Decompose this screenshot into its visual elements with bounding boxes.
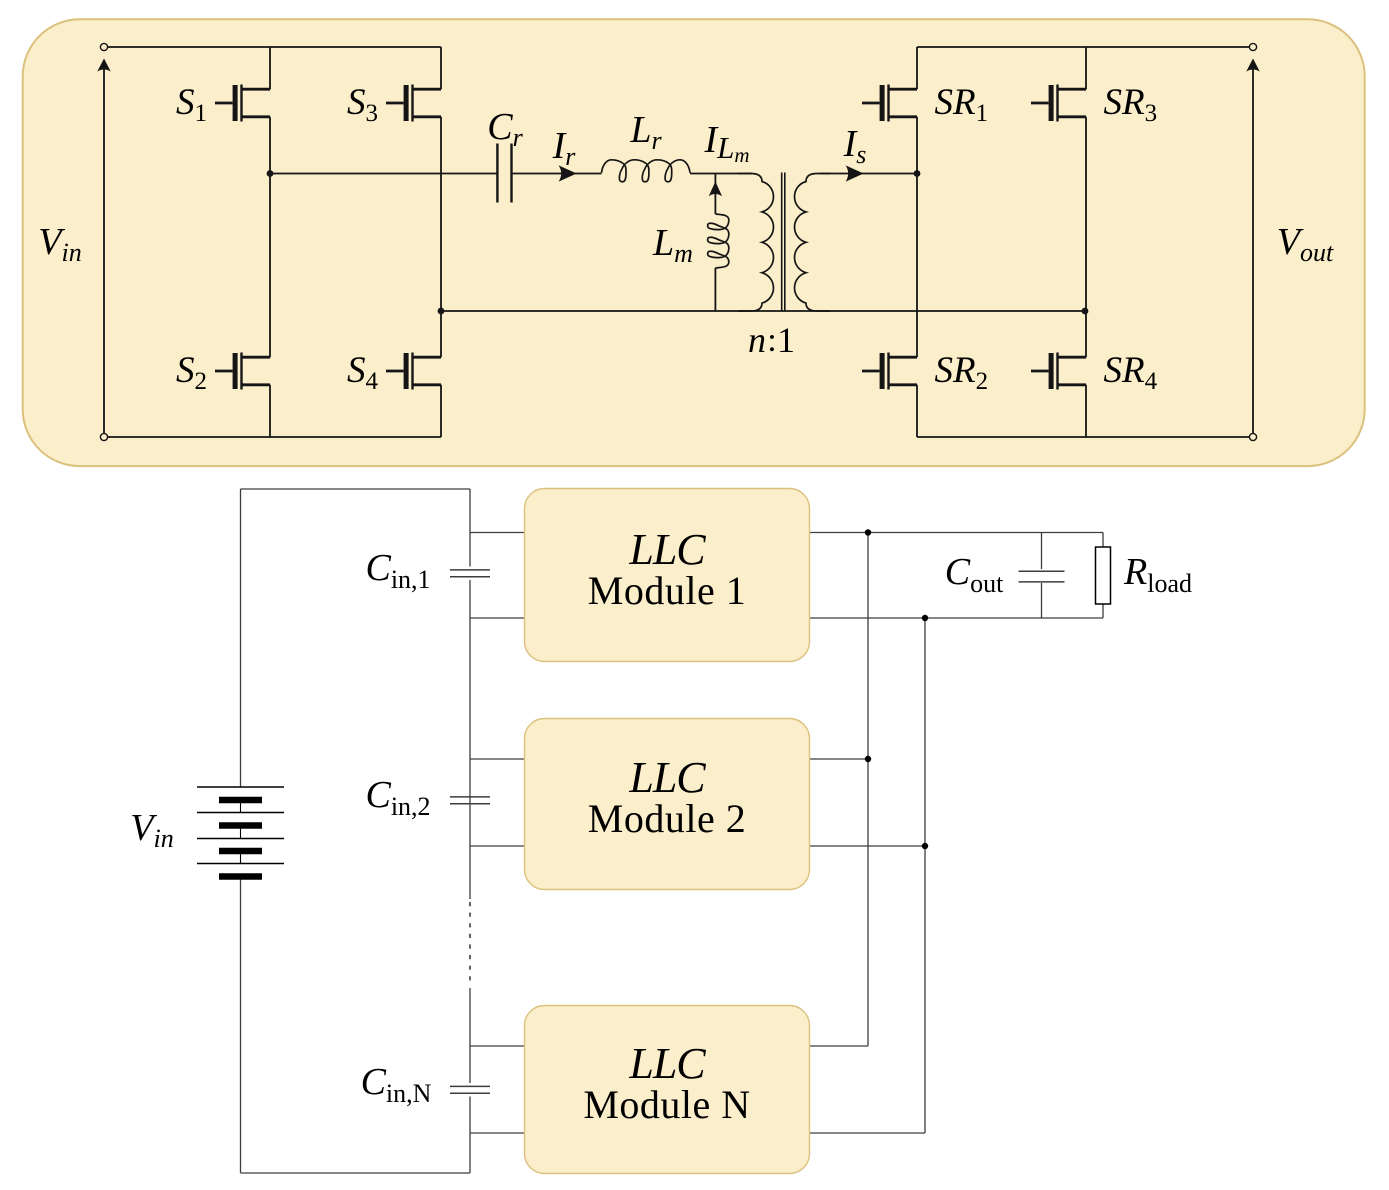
- svg-text:Cout: Cout: [945, 551, 1004, 598]
- svg-text:Module 2: Module 2: [588, 796, 746, 841]
- svg-text:n: n: [748, 320, 766, 360]
- svg-text:LLC: LLC: [628, 1039, 706, 1088]
- svg-text:Cin,N: Cin,N: [361, 1061, 432, 1108]
- svg-text:LLC: LLC: [628, 525, 706, 574]
- svg-text:Module N: Module N: [583, 1082, 750, 1127]
- svg-text:Rload: Rload: [1123, 551, 1192, 598]
- svg-text::: :: [767, 322, 776, 359]
- svg-text:Cin,2: Cin,2: [365, 774, 430, 821]
- svg-text:1: 1: [777, 320, 795, 360]
- svg-text:Cin,1: Cin,1: [365, 547, 430, 594]
- svg-text:LLC: LLC: [628, 753, 706, 802]
- svg-text:Module 1: Module 1: [588, 568, 746, 613]
- svg-text:Vin: Vin: [130, 807, 173, 853]
